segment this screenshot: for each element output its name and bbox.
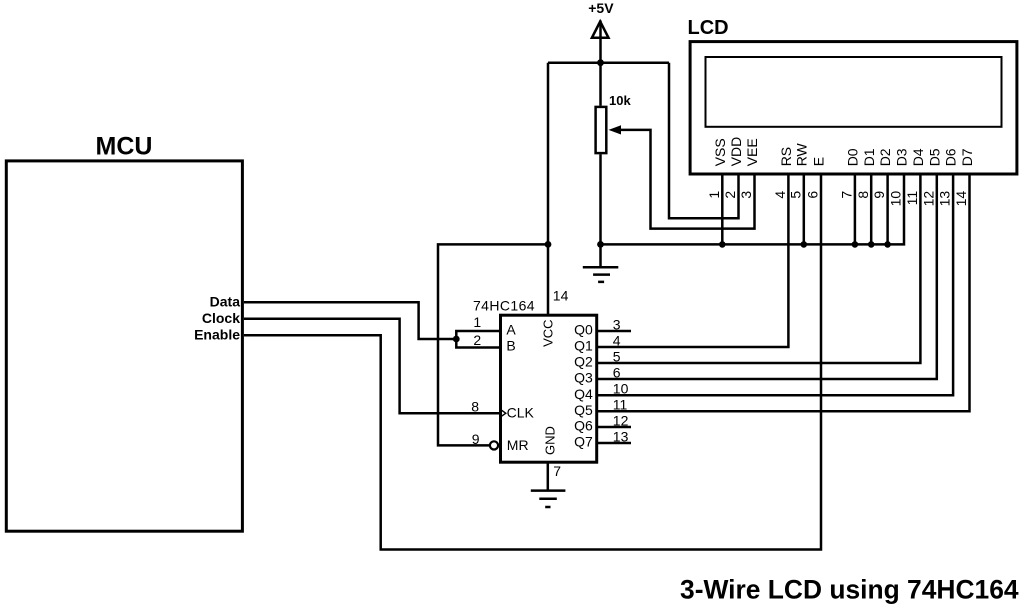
svg-text:1: 1 (473, 314, 481, 330)
svg-text:E: E (811, 157, 827, 166)
svg-text:D7: D7 (959, 148, 975, 166)
svg-text:CLK: CLK (507, 405, 535, 421)
wire Q6 stub (597, 426, 631, 429)
wire D1 to ground rail (870, 174, 873, 245)
svg-text:4: 4 (772, 191, 788, 199)
wire MR pull-up to VCC (438, 244, 548, 445)
wire Data from MCU to A/B of 74HC164 (244, 302, 501, 347)
wiper arrow (609, 125, 622, 134)
clock input triangle (501, 410, 506, 417)
wire Q2 to D4 (597, 174, 921, 363)
svg-text:VDD: VDD (728, 137, 744, 167)
wire wiper to VEE (620, 130, 755, 229)
svg-text:14: 14 (953, 191, 969, 207)
svg-text:D1: D1 (861, 148, 877, 166)
node D2 junction (884, 241, 891, 248)
node +5V junction (597, 59, 604, 66)
svg-text:Data: Data (210, 293, 241, 309)
wire VSS to ground rail (721, 174, 724, 245)
node VSS junction (719, 241, 726, 248)
svg-text:+5V: +5V (588, 0, 614, 16)
svg-text:10k: 10k (609, 93, 631, 108)
svg-text:MCU: MCU (96, 133, 153, 161)
svg-text:A: A (506, 322, 516, 338)
svg-text:12: 12 (920, 191, 936, 207)
node D0 junction (852, 241, 859, 248)
wire Q0 stub (597, 330, 631, 333)
LCD box (690, 42, 1017, 174)
wire VCC line down to pin 14 (547, 63, 550, 316)
svg-text:D6: D6 (943, 148, 959, 166)
svg-text:7: 7 (553, 463, 561, 479)
svg-text:Clock: Clock (202, 310, 240, 326)
svg-text:D0: D0 (845, 148, 861, 166)
svg-text:2: 2 (473, 332, 481, 348)
wire ground rail with D3 (601, 174, 905, 245)
wire D0 to ground rail (854, 174, 857, 245)
svg-text:D4: D4 (910, 148, 926, 166)
svg-text:VCC: VCC (541, 319, 556, 346)
svg-text:1: 1 (706, 191, 722, 199)
svg-text:Q4: Q4 (574, 386, 593, 402)
svg-text:5: 5 (787, 191, 803, 199)
node pot-bottom ground junction (597, 241, 604, 248)
svg-text:8: 8 (855, 191, 871, 199)
svg-text:Q0: Q0 (574, 322, 593, 338)
svg-text:11: 11 (904, 191, 920, 206)
MCU box (6, 161, 242, 531)
svg-text:9: 9 (871, 191, 887, 199)
svg-text:2: 2 (722, 191, 738, 199)
node MR-VCC junction (545, 241, 552, 248)
svg-text:14: 14 (553, 288, 569, 304)
svg-text:3: 3 (738, 191, 754, 199)
svg-text:Enable: Enable (194, 326, 240, 342)
ground symbol below pot (583, 267, 619, 282)
svg-text:VSS: VSS (712, 138, 728, 166)
node Data split junction (453, 336, 460, 343)
node RW junction (801, 241, 808, 248)
wire +5V rail to VCC and VDD (548, 61, 669, 64)
svg-text:LCD: LCD (688, 17, 729, 39)
wire Q3 to D5 (597, 174, 937, 379)
IC 74HC164 box (501, 315, 597, 462)
wire Enable from MCU to LCD E pin (244, 174, 821, 550)
svg-text:GND: GND (543, 426, 558, 455)
svg-text:74HC164: 74HC164 (473, 298, 535, 314)
power +5V arrow symbol (592, 22, 609, 38)
wire VDD to +5V (669, 63, 739, 219)
svg-text:VEE: VEE (744, 138, 760, 166)
svg-text:RS: RS (778, 147, 794, 166)
wire Q1 to RS (597, 174, 789, 347)
wire RW to ground rail (803, 174, 806, 245)
wire Q7 stub (597, 442, 631, 445)
wire D2 to ground rail (886, 174, 889, 245)
wire Q5 to D7 (597, 174, 970, 411)
svg-text:Q5: Q5 (574, 402, 593, 418)
svg-text:D5: D5 (926, 148, 942, 166)
svg-text:D3: D3 (894, 148, 910, 166)
svg-text:Q3: Q3 (574, 370, 593, 386)
ground symbol below IC (531, 491, 566, 507)
svg-text:B: B (506, 338, 515, 354)
svg-text:Q7: Q7 (574, 434, 593, 450)
svg-text:Q1: Q1 (574, 338, 593, 354)
svg-text:6: 6 (805, 191, 821, 199)
resistor 10k potentiometer (596, 107, 607, 153)
svg-text:MR: MR (507, 437, 529, 453)
MR bubble (490, 441, 498, 449)
svg-text:3-Wire LCD using 74HC164: 3-Wire LCD using 74HC164 (680, 574, 1019, 604)
LCD display window (706, 57, 1002, 127)
svg-text:Q2: Q2 (574, 354, 593, 370)
svg-text:8: 8 (471, 399, 479, 415)
svg-text:10: 10 (888, 191, 904, 207)
svg-text:Q6: Q6 (574, 418, 593, 434)
svg-text:7: 7 (839, 191, 855, 199)
wire GND pin 7 (547, 462, 550, 490)
svg-text:9: 9 (472, 431, 480, 447)
svg-text:RW: RW (793, 142, 809, 166)
svg-text:D2: D2 (877, 148, 893, 166)
wire pot bottom to ground (599, 154, 602, 268)
svg-text:13: 13 (937, 191, 953, 207)
wire Q4 to D6 (597, 174, 953, 395)
wire +5V stem (599, 21, 602, 106)
wire Clock from MCU to CLK (244, 319, 501, 414)
node D1 junction (868, 241, 875, 248)
